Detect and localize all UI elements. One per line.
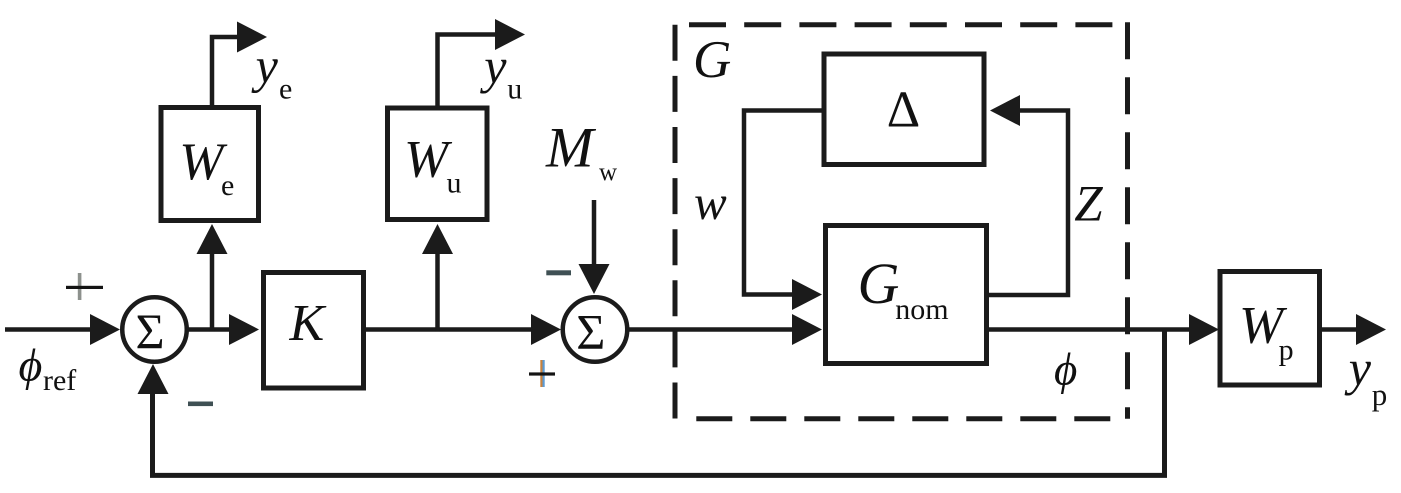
svg-text:Δ: Δ — [887, 82, 920, 139]
wire: Wu output to y_u — [438, 19, 526, 106]
wire: branch up to We — [197, 224, 228, 332]
svg-text:ϕ: ϕ — [1054, 345, 1077, 395]
svg-text:e: e — [221, 169, 234, 202]
block Wp — [1220, 272, 1320, 386]
label y_e — [251, 38, 293, 106]
svg-text:y: y — [1344, 340, 1372, 396]
svg-text:M: M — [545, 116, 597, 179]
wire: Z path from G_nom to Delta — [988, 95, 1068, 295]
svg-text:p: p — [1279, 334, 1294, 367]
wire: S2 output to G_nom — [628, 314, 822, 345]
block Delta — [824, 54, 984, 165]
svg-text:Σ: Σ — [576, 304, 605, 360]
wire: disturbance M_w into S2 — [579, 200, 610, 294]
svg-text:w: w — [694, 175, 727, 230]
wire: K output to summer S2 — [366, 314, 561, 345]
svg-text:G: G — [858, 251, 900, 316]
svg-text:y: y — [251, 38, 279, 94]
wire: Wp output y_p — [1322, 314, 1386, 345]
wire: w path from Delta to G_nom — [744, 111, 822, 311]
block G_nom — [826, 226, 987, 364]
uncertainty boundary G (dashed box) — [675, 22, 1128, 419]
block We — [161, 108, 259, 221]
wire: feedback path to S1 — [138, 330, 1165, 476]
svg-text:ϕ: ϕ — [19, 340, 43, 391]
svg-text:G: G — [693, 31, 731, 89]
wire: S1 output to K — [188, 314, 260, 345]
summing junction S2 — [563, 297, 628, 362]
svg-text:ref: ref — [43, 364, 76, 397]
label phi_ref — [19, 340, 77, 398]
svg-text:Z: Z — [1074, 177, 1103, 233]
label - (feedback sign at S1) — [188, 402, 213, 407]
label y_u — [479, 38, 522, 106]
label + (reference input sign) — [66, 273, 103, 300]
svg-text:y: y — [479, 38, 507, 94]
wire: We output to y_e — [212, 22, 267, 107]
block K — [264, 273, 364, 389]
svg-text:u: u — [507, 73, 522, 106]
svg-text:w: w — [599, 159, 617, 186]
label + (S2 plus sign) — [529, 360, 555, 387]
wire: branch up to Wu — [422, 224, 453, 332]
svg-text:p: p — [1372, 377, 1388, 412]
svg-text:K: K — [289, 295, 327, 352]
svg-text:nom: nom — [895, 293, 948, 326]
summing junction S1 — [122, 297, 187, 362]
svg-text:u: u — [447, 166, 462, 199]
label M_w — [545, 116, 617, 186]
wire: reference input into summer S1 — [5, 314, 120, 345]
svg-text:e: e — [279, 73, 292, 106]
label - (M_w sign at S2) — [546, 270, 571, 275]
wire: G_nom output to Wp — [988, 314, 1219, 345]
label y_p — [1344, 340, 1388, 412]
svg-text:Σ: Σ — [136, 303, 165, 359]
block Wu — [388, 108, 488, 220]
